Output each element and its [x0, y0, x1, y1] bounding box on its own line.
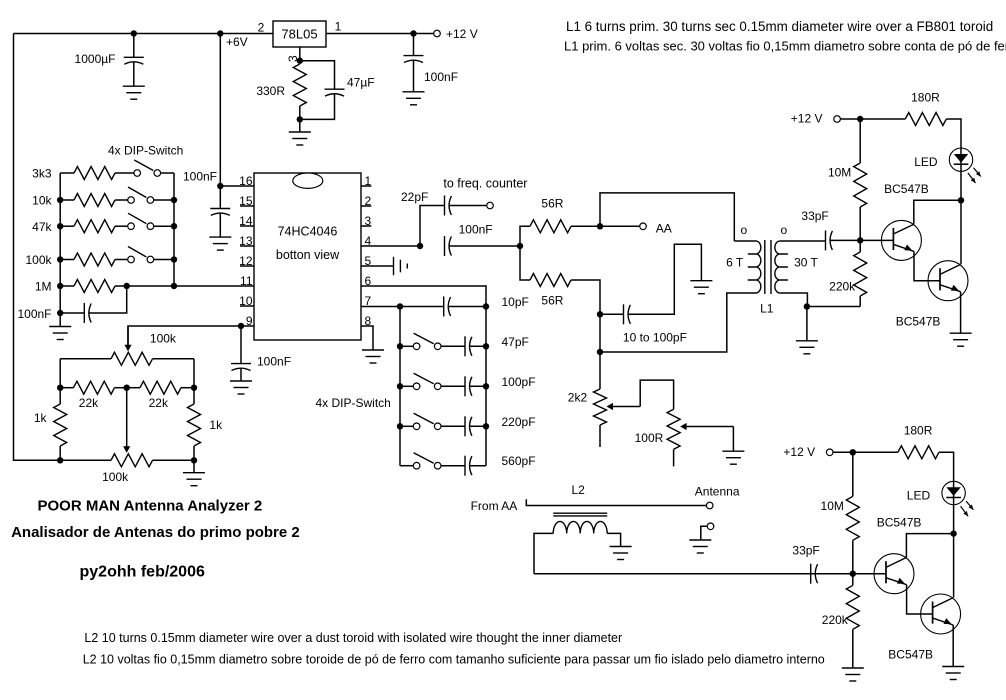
node +12V junction (lower) [850, 449, 856, 455]
ground below lower pot [183, 473, 205, 486]
wire 220k bottom lead (upper) [859, 296, 861, 307]
svg-text:47k: 47k [32, 220, 52, 234]
node pin7/left bus junction [397, 303, 403, 309]
wire LED anode-cathode through (upper) [960, 148, 962, 200]
node junction C1/top rail [131, 30, 137, 36]
svg-text:22k: 22k [79, 396, 99, 410]
wire left bus to 560pF switch [400, 465, 413, 467]
ground below C4 [403, 92, 425, 105]
capacitor 100nF (PLL filter) [84, 303, 91, 323]
svg-text:o: o [741, 223, 748, 237]
wire antenna jack to ground [701, 526, 707, 540]
ground for 100R wiper [722, 451, 744, 464]
wire 330R bottom to ground junction [299, 106, 301, 119]
node bottom bus junction [597, 349, 603, 355]
node 56R divider junction [517, 243, 523, 249]
resistor 180R (upper) [905, 113, 946, 126]
wire 47k row left lead [60, 225, 74, 227]
ground at pin 5 (sideways) [394, 257, 408, 275]
ground below pin 8 [362, 350, 384, 363]
node left bus junction y=226.2 [57, 223, 63, 229]
pot 100R bottom lead [673, 449, 675, 466]
wire AA node to terminal [600, 225, 640, 227]
node variable cap junction [597, 311, 603, 317]
wire 1M row to IC pin 11 [115, 285, 254, 287]
wire 100nF row left lead [60, 312, 84, 314]
wire 100nF to 56R node [449, 245, 520, 247]
wire 56R top branch [520, 226, 530, 246]
resistor 3k3 [74, 167, 115, 180]
transformer L1 core [764, 240, 766, 294]
svg-text:1000µF: 1000µF [75, 52, 116, 66]
capacitor 220pF [465, 416, 472, 436]
svg-text:12: 12 [239, 254, 253, 268]
svg-text:14: 14 [239, 214, 253, 228]
resistor 10M (lower) [846, 496, 859, 540]
wire +12V input rail (top) [14, 33, 274, 35]
wire 33pF to base node (lower) [815, 573, 853, 575]
wire 10pF left lead [400, 306, 444, 308]
wire 220k top lead (lower) [852, 574, 854, 586]
node right cap bus junction y=426.3 [483, 423, 489, 429]
svg-text:13: 13 [239, 234, 253, 248]
capacitor 10 to 100pF (variable) [624, 304, 631, 324]
resistor 10k [74, 194, 115, 207]
svg-text:100k: 100k [150, 331, 177, 345]
LED D1 (lower) [942, 481, 974, 516]
svg-text:+6V: +6V [226, 35, 248, 49]
node bottom-right junction [191, 457, 197, 463]
pot 100k upper left lead [60, 358, 111, 360]
wire IC pin 6 to right cap bus [361, 286, 486, 466]
wire pot right end down [193, 359, 195, 388]
svg-text:56R: 56R [541, 197, 563, 211]
wire 100pF switch to cap [441, 385, 465, 387]
wire 560pF to right bus [469, 465, 486, 467]
ground below C3 [209, 237, 231, 250]
wire 10M bottom lead (upper) [859, 207, 861, 240]
wire to ground under 330R [299, 119, 301, 132]
switch DIP 10k row [128, 187, 154, 203]
wire IC pin 14 stub [240, 225, 254, 227]
svg-text:1k: 1k [34, 411, 48, 425]
transistor Q2 BC547B (upper) [928, 261, 968, 301]
pot 100k upper wiper arrow [124, 326, 131, 351]
wire 47pF switch to cap [441, 345, 465, 347]
capacitor 10pF [444, 297, 451, 317]
capacitor 33pF (lower) [811, 564, 818, 584]
resistor 1k (right) [188, 404, 201, 446]
svg-text:POOR MAN Antenna Analyzer 2: POOR MAN Antenna Analyzer 2 [38, 498, 263, 515]
wire 10M top lead (upper) [859, 119, 861, 163]
potentiometer 2k2 body [594, 389, 607, 425]
wire 56R bottom to bus [571, 280, 600, 352]
node base junction (upper) [857, 237, 863, 243]
svg-text:BC547B: BC547B [884, 182, 929, 196]
wire Q2 emitter to ground (upper) [960, 292, 962, 334]
svg-text:o: o [781, 223, 788, 237]
svg-text:10M: 10M [821, 499, 844, 513]
pot 100k lower left lead [60, 459, 111, 461]
svg-text:100nF: 100nF [424, 70, 458, 84]
pot 100k upper right lead [153, 358, 195, 360]
svg-text:1: 1 [335, 20, 342, 34]
inductor L2 core [553, 512, 607, 514]
node 100nF row left junction [57, 310, 63, 316]
wire +6V rail down to pin 16 [220, 34, 254, 187]
svg-text:560pF: 560pF [502, 454, 536, 468]
capacitor C2 47µF [325, 89, 345, 96]
node right bus junction y=200 [171, 197, 177, 203]
svg-text:100nF: 100nF [459, 222, 493, 236]
wire bus to 2k2 top [599, 352, 601, 389]
wire 47pF to right bus [469, 345, 486, 347]
node 1M/100nF junction [124, 283, 130, 289]
inductor L1 secondary winding [775, 241, 779, 293]
wire bus to transformer primary bottom [600, 293, 757, 352]
wire IC pin 7 out [361, 306, 400, 308]
node left cap bus junction y=386.3 [397, 383, 403, 389]
wire 100k switch to right bus [154, 259, 174, 261]
node base junction (lower) [850, 571, 856, 577]
potentiometer 100R body [667, 409, 680, 449]
wire secondary turn tick y=254 [779, 253, 788, 255]
capacitor C4 100nF (at +12V) [404, 34, 424, 92]
svg-text:3: 3 [365, 214, 372, 228]
wire 560pF switch to cap [441, 465, 465, 467]
node pin 9 junction [238, 323, 244, 329]
wire C2 top branch [300, 61, 335, 89]
wire to ground below right 1k [193, 460, 195, 472]
node right cap bus junction y=346.3 [483, 343, 489, 349]
wire 56R top to AA node [571, 225, 600, 227]
wire right bus of resistor bank [173, 173, 175, 286]
node LED cathode junction (upper) [958, 197, 964, 203]
wire LED junction to Q2 collector (lower) [953, 534, 955, 598]
ground below 220k (lower) [842, 668, 864, 681]
wire 47k row to switch [115, 225, 128, 227]
wire 10M top lead (lower) [852, 452, 854, 496]
svg-text:10 to 100pF: 10 to 100pF [623, 330, 687, 344]
svg-text:30 T: 30 T [794, 255, 818, 269]
wire 220pF switch to cap [441, 425, 465, 427]
node 78L05 pin3 junction [297, 58, 303, 64]
regulator U2 78L05 box [273, 21, 326, 47]
svg-text:47µF: 47µF [347, 76, 375, 90]
node right bus junction y=226.2 [171, 223, 177, 229]
switch DIP 47k row [128, 213, 154, 229]
resistor 220k (upper) [854, 252, 867, 296]
wire 78L05 pin3 stub [299, 47, 301, 61]
wire 10k row to switch [115, 199, 128, 201]
wire 22pF to freq counter terminal [449, 205, 487, 207]
svg-text:74HC4046: 74HC4046 [278, 225, 338, 239]
svg-text:47pF: 47pF [502, 335, 529, 349]
wire 220pF to right bus [469, 425, 486, 427]
wire pot left end down [59, 359, 61, 388]
svg-text:AA: AA [656, 221, 672, 235]
wire C2 bottom branch [300, 94, 335, 120]
transistor Q1 BC547B (lower) [874, 554, 914, 594]
capacitor C3 100nF (pin16 bypass) [210, 186, 230, 237]
wire varcap left lead [600, 313, 624, 315]
switch DIP 220pF row [413, 413, 441, 429]
terminal Antenna [706, 502, 713, 509]
wire IC pin 1 stub [361, 185, 371, 187]
node +6V junction [217, 30, 223, 36]
terminal +12V (lower amp) [826, 449, 833, 456]
svg-text:11: 11 [240, 274, 253, 288]
node right cap bus junction y=386.3 [483, 383, 489, 389]
wire 100k row to switch [115, 259, 128, 261]
svg-text:78L05: 78L05 [281, 27, 317, 42]
resistor 22k (right) [140, 381, 181, 394]
capacitor 100nF (pin4 coupling) [445, 236, 452, 256]
svg-text:220k: 220k [822, 613, 849, 627]
node 22k right junction [191, 385, 197, 391]
wire 180R to LED (lower) [939, 452, 954, 481]
svg-text:10pF: 10pF [502, 295, 529, 309]
node 330R/C2 bottom junction [297, 116, 303, 122]
transistor Q2 BC547B (lower) [921, 594, 961, 634]
pot 100k lower wiper arrow [123, 446, 130, 453]
wire 1k right top lead [193, 388, 195, 404]
wire 1k right bottom lead [193, 446, 195, 460]
inductor L2 winding [553, 521, 607, 533]
svg-text:100nF: 100nF [257, 355, 291, 369]
node 22k center junction [124, 385, 130, 391]
node +12V junction (upper) [857, 116, 863, 122]
IC U1 74HC4046 body [254, 173, 361, 340]
svg-text:+12 V: +12 V [783, 445, 815, 459]
ground below Q2 (upper) [950, 333, 972, 346]
resistor 220k (lower) [846, 585, 859, 629]
svg-text:L1: L1 [760, 302, 774, 316]
switch DIP 47pF row [413, 333, 441, 349]
wire secondary top to 33pF [779, 240, 825, 242]
ground below resistor bank [49, 327, 71, 340]
node left cap bus junction y=346.3 [397, 343, 403, 349]
wire L2 left lead [534, 533, 553, 573]
wire L2 right lead to ground [607, 533, 620, 546]
wire 78L05 output to +12V terminal [326, 33, 434, 35]
wire 2k2 wiper to 100R wiper path [640, 380, 673, 409]
potentiometer 100k (lower) body [111, 454, 153, 467]
node left cap bus junction y=426.3 [397, 423, 403, 429]
resistor 330R [293, 64, 306, 106]
ground below Q2 (lower) [942, 667, 964, 680]
svg-text:9: 9 [246, 314, 253, 328]
capacitor 100pF [465, 376, 472, 396]
ground below pin9 cap [230, 381, 252, 394]
svg-text:100R: 100R [635, 431, 664, 445]
svg-text:Antenna: Antenna [695, 485, 740, 499]
node pin16/C3 junction [217, 183, 223, 189]
svg-text:180R: 180R [911, 90, 940, 104]
ground below 330R [289, 132, 311, 145]
wire 10M bottom lead (lower) [852, 540, 854, 573]
svg-text:to freq. counter: to freq. counter [443, 176, 527, 190]
terminal +12V (upper amp) [834, 116, 841, 123]
wire 22k row left lead [60, 387, 73, 389]
wire LED junction to Q1 collector (upper) [914, 200, 961, 224]
svg-text:100nF: 100nF [183, 170, 217, 184]
terminal AA [640, 223, 647, 230]
svg-text:100k: 100k [102, 470, 129, 484]
wire left bus of resistor bank [59, 173, 61, 313]
svg-text:10: 10 [239, 294, 253, 308]
LED D1 (upper) [949, 148, 981, 183]
wire +12V to 180R (upper) [841, 118, 906, 120]
svg-text:15: 15 [239, 194, 253, 208]
wire IC pin 3 stub [361, 225, 371, 227]
resistor 10M (upper) [854, 163, 867, 207]
svg-text:6 T: 6 T [726, 255, 744, 269]
wire 3k3 row left lead [60, 172, 74, 174]
svg-text:LED: LED [907, 488, 931, 502]
svg-text:100k: 100k [25, 253, 52, 267]
resistor 47k [74, 220, 115, 233]
ground below C1 [123, 86, 145, 99]
svg-text:22k: 22k [149, 396, 169, 410]
svg-text:BC547B: BC547B [896, 314, 941, 328]
wire 100R wiper to ground [732, 427, 734, 452]
svg-text:100pF: 100pF [502, 375, 536, 389]
wire 1M row left lead [60, 285, 74, 287]
wire primary turn tick y=267 [748, 266, 757, 268]
wire to ground below left bus [59, 313, 61, 327]
wire 3k3 row to switch [115, 172, 134, 174]
wire 33pF to base node (upper) [830, 239, 860, 241]
node junction C4/+12V [410, 30, 416, 36]
wire secondary turn tick y=280 [779, 279, 788, 281]
wire +12V to 180R (lower) [833, 451, 898, 453]
svg-text:10k: 10k [32, 194, 52, 208]
terminal antenna jack [707, 523, 714, 530]
node AA junction [597, 223, 603, 229]
wire 56R bottom branch [520, 246, 530, 280]
wire primary turn tick y=280 [748, 279, 757, 281]
wire 10pF right lead [448, 306, 486, 308]
svg-text:L1 6 turns prim. 30 turns sec: L1 6 turns prim. 30 turns sec 0.15mm dia… [566, 19, 993, 34]
wire center junction down to lower pot wiper [126, 388, 128, 447]
wire pin 9 to pots [128, 326, 241, 348]
node secondary bottom junction [804, 303, 810, 309]
svg-text:4x DIP-Switch: 4x DIP-Switch [316, 396, 391, 410]
wire 47k switch to right bus [154, 225, 174, 227]
node left bus junction y=200 [57, 197, 63, 203]
wire IC pin 12 stub [240, 265, 254, 267]
svg-text:2: 2 [365, 194, 372, 208]
wire secondary turn tick y=267 [779, 266, 788, 268]
node LED cathode junction (lower) [950, 530, 956, 536]
svg-text:L2: L2 [572, 483, 586, 497]
node right bus junction y=259.5 [171, 256, 177, 262]
svg-text:2: 2 [258, 21, 265, 35]
wire 220k bottom to ground (lower) [852, 629, 854, 668]
resistor 100k [74, 253, 115, 266]
wire 1k left top lead [59, 388, 61, 404]
resistor 22k (left) [74, 381, 115, 394]
svg-text:Analisador de Antenas do primo: Analisador de Antenas do primo pobre 2 [11, 524, 300, 541]
wire LED junction to Q1 collector (lower) [906, 534, 953, 558]
pot 100k lower right lead [153, 459, 195, 461]
wire base node to Q1 (upper) [860, 239, 893, 241]
wire IC pin 8 to ground [361, 326, 373, 350]
IC U1 notch [293, 173, 323, 188]
inductor L1 primary winding [757, 241, 761, 293]
wire secondary bottom to 220k [807, 306, 860, 308]
capacitor 100nF (pin9) [231, 326, 251, 381]
wire 180R to LED (upper) [946, 119, 961, 148]
switch DIP 3k3 row [134, 160, 161, 176]
resistor 1k (left) [54, 404, 67, 446]
wire IC pin 10 stub [240, 305, 254, 307]
svg-text:100nF: 100nF [17, 307, 51, 321]
wire 22k right lead [181, 387, 194, 389]
capacitor 22pF [445, 196, 452, 216]
node left bus junction y=259.5 [57, 256, 63, 262]
capacitor C1 1000µF [124, 34, 144, 87]
wire secondary bottom [779, 293, 807, 307]
wire left cap bus [399, 307, 401, 466]
ground for variable cap [690, 281, 712, 294]
wire IC pin 2 stub [361, 205, 371, 207]
switch DIP 100k row [128, 247, 154, 263]
pot 2k2 wiper arrow [607, 403, 641, 410]
wire secondary bottom to ground [806, 307, 808, 341]
pot 100R wiper arrow [680, 423, 733, 430]
svg-text:33pF: 33pF [801, 209, 828, 223]
switch DIP 100pF row [413, 373, 441, 389]
svg-text:botton view: botton view [276, 248, 340, 262]
wire primary top lead [734, 240, 756, 242]
ground below L2 [610, 547, 632, 560]
wire IC pin 4 out [361, 245, 420, 247]
wire IC pin 9 stub [240, 325, 254, 327]
svg-text:+12 V: +12 V [446, 27, 478, 41]
terminal +12V (top) [434, 30, 441, 37]
svg-text:4x DIP-Switch: 4x DIP-Switch [108, 144, 183, 158]
wire IC pin 13 stub [240, 245, 254, 247]
svg-text:BC547B: BC547B [888, 648, 933, 662]
svg-text:1M: 1M [35, 280, 52, 294]
switch DIP 560pF row [413, 453, 441, 469]
wire LED junction to Q2 collector (upper) [960, 200, 962, 264]
wire 1k left bottom lead [59, 446, 61, 460]
potentiometer 100k (upper) body [111, 352, 153, 365]
svg-text:L2 10 voltas fio 0,15mm diamet: L2 10 voltas fio 0,15mm diametro sobre t… [83, 652, 825, 666]
wire varcap to ground path [628, 244, 702, 314]
wire primary turn tick y=254 [748, 253, 757, 255]
svg-text:L2 10 turns 0.15mm diameter w: L2 10 turns 0.15mm diameter wire over a … [84, 631, 622, 645]
node 22k left junction [57, 385, 63, 391]
svg-text:2k2: 2k2 [568, 391, 588, 405]
capacitor 33pF (upper) [826, 230, 833, 250]
node bottom-left junction [57, 457, 63, 463]
terminal to freq. counter [487, 202, 494, 209]
wire base node to Q1 (lower) [853, 573, 886, 575]
ground below L1 secondary [796, 341, 818, 354]
wire left bus to 220pF switch [400, 425, 413, 427]
wire AA node up to transformer primary [600, 193, 734, 241]
node pin4/22pF junction [417, 243, 423, 249]
node right bus junction y=286 [171, 283, 177, 289]
node 10pF right junction [483, 303, 489, 309]
wire 100pF to right bus [469, 385, 486, 387]
svg-text:22pF: 22pF [401, 190, 428, 204]
wire 22k left to center [115, 387, 127, 389]
